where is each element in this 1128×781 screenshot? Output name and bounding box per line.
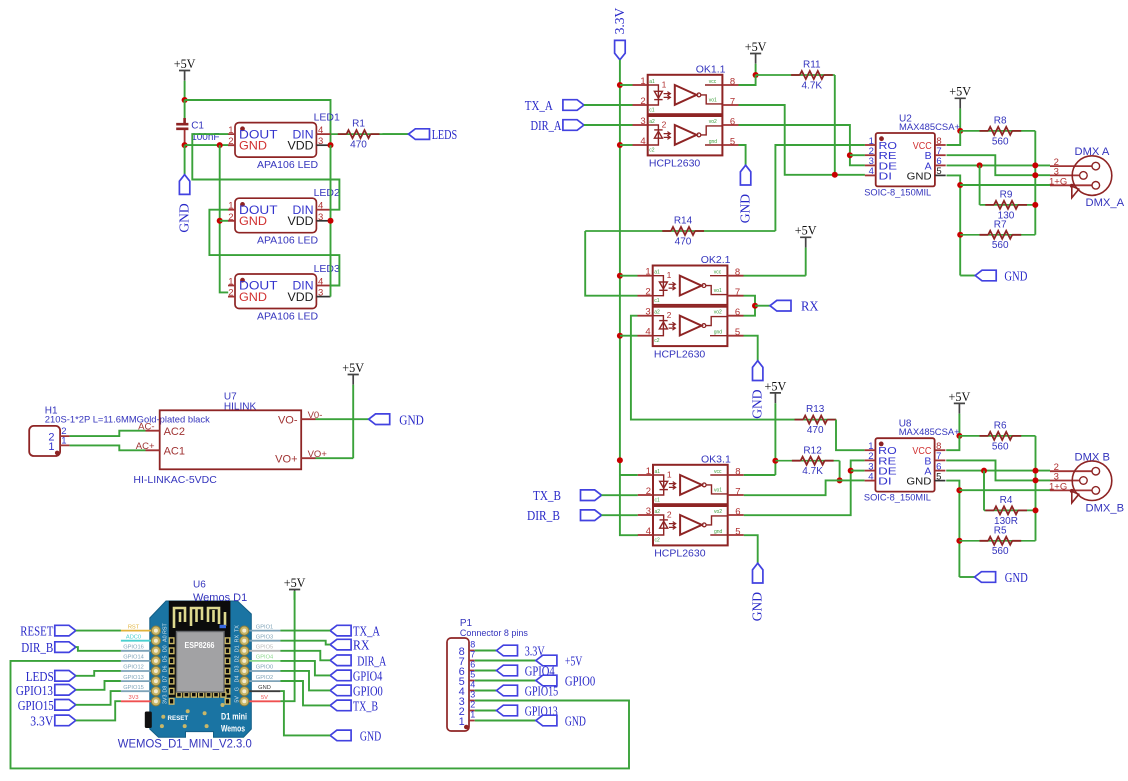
svg-text:DMX A: DMX A <box>1075 146 1110 158</box>
wire P1 pin2 <box>475 710 497 712</box>
junction (R12 tap) <box>772 458 778 464</box>
svg-text:a1: a1 <box>649 79 655 85</box>
wire R1 to LEDS flag <box>383 133 409 135</box>
junction (R4 column) <box>1033 507 1039 513</box>
wire GND to DMX A pin1 <box>960 184 1050 186</box>
svg-text:OK3.1: OK3.1 <box>701 453 731 465</box>
svg-text:2: 2 <box>228 136 233 147</box>
svg-text:+5V: +5V <box>342 361 364 375</box>
svg-text:2: 2 <box>662 120 667 130</box>
svg-text:RX: RX <box>235 635 241 643</box>
svg-text:GND: GND <box>1005 570 1028 585</box>
node RX <box>770 300 791 311</box>
wire to OK1 pin1 <box>620 84 633 86</box>
svg-text:R6: R6 <box>994 421 1007 432</box>
svg-text:c2: c2 <box>655 538 661 544</box>
svg-text:5: 5 <box>470 670 475 680</box>
node GPIO13 (U6) <box>55 685 76 696</box>
junction (3.3V OK2 pin4) <box>617 333 623 339</box>
wire LED2 DOUT to LED3 DIN <box>209 210 339 286</box>
ground GND (OK1) <box>740 165 750 185</box>
svg-text:1: 1 <box>646 466 651 477</box>
svg-text:RESET: RESET <box>168 715 189 722</box>
svg-text:D7: D7 <box>163 676 169 683</box>
junction (+5V/R8/VCC) <box>957 128 963 134</box>
connector H1 <box>29 406 210 457</box>
svg-text:GPIO15: GPIO15 <box>123 685 144 691</box>
node GND (U8) <box>975 572 996 583</box>
wire P1 pin4 <box>475 690 497 692</box>
svg-text:2: 2 <box>470 700 475 710</box>
ground GND (top left) <box>179 175 189 195</box>
pin GPIO3 (U6 right) <box>249 640 280 642</box>
svg-text:GPIO16: GPIO16 <box>123 645 144 651</box>
svg-text:Wemos D1: Wemos D1 <box>193 592 247 604</box>
LED LED2 APA106 <box>228 187 340 247</box>
svg-text:R13: R13 <box>806 404 825 415</box>
wire GND to DMX B pin1 <box>959 489 1050 491</box>
svg-text:2: 2 <box>667 310 672 320</box>
node 3.3V (P1) <box>497 645 518 656</box>
junction (R11/DI) <box>832 172 838 178</box>
wire P1 pin6 <box>475 670 497 672</box>
svg-text:2: 2 <box>667 510 672 520</box>
svg-text:3: 3 <box>470 690 475 700</box>
svg-text:7: 7 <box>735 287 740 298</box>
wire OK2 pin5 to GND <box>744 336 758 361</box>
connector P1 8 pins <box>447 618 528 731</box>
wire DIR_B to OK3 pin3 <box>602 514 638 516</box>
svg-text:5: 5 <box>936 471 941 482</box>
svg-text:GPIO13: GPIO13 <box>16 683 53 698</box>
opto-isolator OK1.1 HCPL2630 <box>633 63 739 169</box>
svg-text:1: 1 <box>459 716 465 728</box>
svg-text:GND: GND <box>399 412 424 427</box>
pin GPIO5 (U6 right) <box>249 650 280 652</box>
svg-text:RX: RX <box>801 299 819 314</box>
svg-text:6: 6 <box>735 507 740 518</box>
node GND (U7) <box>369 414 390 425</box>
ground GND (OK3) <box>753 563 763 583</box>
svg-text:vcc: vcc <box>714 469 722 475</box>
wire +5V rail down to C1 <box>184 100 186 123</box>
svg-text:VDD: VDD <box>288 214 314 228</box>
resistor R9 130 <box>980 204 1036 206</box>
svg-text:TX_B: TX_B <box>533 488 561 503</box>
pin GND (U6 right) <box>249 690 280 692</box>
junction (RE tap) <box>847 152 853 158</box>
pin GPIO16 (U6 left) <box>121 650 151 652</box>
svg-text:RX: RX <box>353 638 370 653</box>
svg-text:GND: GND <box>1004 269 1027 284</box>
node GND (U6) <box>330 730 351 741</box>
svg-text:560: 560 <box>992 240 1009 251</box>
wire GPIO15 <box>76 691 121 705</box>
svg-text:1: 1 <box>470 710 475 720</box>
svg-text:1: 1 <box>228 125 233 136</box>
svg-text:GPIO1: GPIO1 <box>256 624 273 630</box>
svg-text:3: 3 <box>645 307 650 318</box>
svg-text:TX_B: TX_B <box>353 698 378 713</box>
svg-text:Connector 8 pins: Connector 8 pins <box>460 628 528 638</box>
svg-text:a1: a1 <box>655 469 661 475</box>
svg-text:vo2: vo2 <box>714 310 722 316</box>
wire R13 to U8 RO <box>836 420 865 451</box>
svg-text:4.7K: 4.7K <box>802 80 823 91</box>
wire TX_A <box>280 630 330 632</box>
svg-text:DI: DI <box>878 476 892 488</box>
svg-text:vo1: vo1 <box>714 288 722 294</box>
wire OK2 pin7 to RX <box>744 296 756 316</box>
svg-text:GND: GND <box>906 476 931 488</box>
wire OK3 pin5 to GND <box>744 535 758 563</box>
svg-text:SOIC-8_150MIL: SOIC-8_150MIL <box>864 493 931 504</box>
svg-text:GND: GND <box>258 685 271 691</box>
svg-text:5: 5 <box>735 327 740 338</box>
junction (GND row to XLR B) <box>956 487 962 493</box>
junction (3.3V OK1 pin1) <box>617 82 623 88</box>
svg-text:RST: RST <box>163 623 169 634</box>
svg-text:LED3: LED3 <box>314 263 340 275</box>
opto-isolator OK2.1 HCPL2630 <box>638 254 744 360</box>
junction (A/R9) <box>977 162 983 168</box>
svg-text:C1: C1 <box>191 121 204 132</box>
svg-text:R1: R1 <box>352 119 365 130</box>
junction (B column) <box>1032 172 1038 178</box>
svg-text:DIR_B: DIR_B <box>527 508 560 523</box>
svg-text:LEDS: LEDS <box>26 669 54 684</box>
svg-text:VO-: VO- <box>278 414 298 426</box>
svg-text:R8: R8 <box>994 116 1007 127</box>
svg-text:3V3: 3V3 <box>128 695 138 701</box>
svg-text:7: 7 <box>730 97 735 108</box>
svg-text:D5: D5 <box>163 655 169 662</box>
svg-text:WEMOS_D1_MINI_V2.3.0: WEMOS_D1_MINI_V2.3.0 <box>118 738 252 750</box>
wire C1 to GND symbol <box>184 145 186 175</box>
wire LED2 GND stub join <box>220 220 229 222</box>
svg-text:gnd: gnd <box>709 139 718 145</box>
pin GPIO14 (U6 left) <box>121 660 151 662</box>
svg-text:1: 1 <box>48 441 54 453</box>
svg-text:1+G: 1+G <box>1049 481 1067 492</box>
svg-text:470: 470 <box>807 425 824 436</box>
transceiver U2 MAX485CSA <box>864 114 960 199</box>
svg-text:6: 6 <box>735 307 740 318</box>
wire to OK3 pin1 <box>620 474 638 476</box>
wire R14 to OK2 pin2 <box>585 231 637 296</box>
junction (LED2 VDD) <box>328 218 334 224</box>
pin GPIO4 (U6 right) <box>249 660 280 662</box>
svg-text:LED1: LED1 <box>314 111 340 123</box>
wire +5V to OK1 pin8 <box>739 75 756 85</box>
junction (DE tap) <box>848 468 854 474</box>
svg-text:APA106 LED: APA106 LED <box>257 235 319 247</box>
resistor R6 560 <box>959 435 1035 437</box>
svg-text:R5: R5 <box>994 525 1007 536</box>
svg-text:GND: GND <box>177 203 192 232</box>
svg-text:5V: 5V <box>235 696 241 703</box>
svg-text:5: 5 <box>936 166 941 177</box>
svg-text:2: 2 <box>645 287 650 298</box>
svg-text:1: 1 <box>640 76 645 87</box>
wire +5V to U2 VCC <box>947 131 961 145</box>
svg-text:DMX_A: DMX_A <box>1086 197 1125 209</box>
junction (B column B) <box>1033 477 1039 483</box>
svg-text:OK1.1: OK1.1 <box>696 63 726 75</box>
svg-text:+5V: +5V <box>949 390 971 404</box>
svg-text:3: 3 <box>640 116 645 127</box>
node DIR_B (U6) <box>55 642 76 653</box>
svg-text:LEDS: LEDS <box>432 127 458 142</box>
connector DMX_A XLR <box>1049 146 1125 209</box>
node GND (U2) <box>975 270 996 281</box>
svg-text:3: 3 <box>318 212 323 223</box>
svg-text:1: 1 <box>645 267 650 278</box>
node GPIO4 (U6) <box>330 670 351 681</box>
svg-text:GPIO3: GPIO3 <box>256 634 273 640</box>
svg-text:4: 4 <box>640 136 645 147</box>
svg-text:4: 4 <box>868 471 873 482</box>
junction (A column B) <box>1033 468 1039 474</box>
svg-text:D1: D1 <box>235 645 241 652</box>
svg-text:3: 3 <box>318 288 323 299</box>
svg-text:G: G <box>235 687 241 691</box>
svg-text:2: 2 <box>228 288 233 299</box>
svg-text:1: 1 <box>61 435 66 446</box>
wire DIR_B to GPIO16 <box>76 647 121 651</box>
svg-text:+5V: +5V <box>765 379 787 393</box>
svg-text:c2: c2 <box>654 338 660 344</box>
svg-text:3.3V: 3.3V <box>30 713 53 728</box>
wire U2 B to DMX A pin3 <box>947 155 1051 175</box>
svg-text:HI-LINKAC-5VDC: HI-LINKAC-5VDC <box>133 474 217 486</box>
svg-text:ADC0: ADC0 <box>126 634 141 640</box>
wire H1 pin2 to U7 AC2 <box>70 431 146 436</box>
pin GPIO13 (U6 left) <box>121 680 151 682</box>
wire RE tap <box>850 154 865 156</box>
transceiver U8 MAX485CSA <box>864 419 960 504</box>
svg-text:c1: c1 <box>655 498 661 504</box>
pin GPIO15 (U6 left) <box>121 690 151 692</box>
LED LED1 APA106 <box>228 111 340 171</box>
junction (R12/DI) <box>837 477 843 483</box>
svg-text:470: 470 <box>675 236 692 247</box>
node GND (P1) <box>536 715 557 726</box>
svg-text:7: 7 <box>470 650 475 660</box>
wire U2 RO down to R14 <box>775 145 865 231</box>
wire R11 to DI net <box>834 75 836 175</box>
svg-text:5: 5 <box>735 527 740 538</box>
svg-text:GPIO0: GPIO0 <box>353 683 383 698</box>
wire U2 GND pin5 down <box>947 175 961 275</box>
svg-text:a2: a2 <box>654 310 660 316</box>
svg-text:c1: c1 <box>654 298 660 304</box>
pin RST (U6 left) <box>121 630 151 632</box>
svg-text:1: 1 <box>667 270 672 280</box>
power 3.3V flag (top) <box>615 40 626 59</box>
svg-text:4: 4 <box>318 125 323 136</box>
wire GND net C1 to LED1 pin2 <box>185 144 229 146</box>
wire RX <box>280 641 330 645</box>
node 3.3V (U6) <box>55 715 76 726</box>
svg-text:vo1: vo1 <box>709 98 717 104</box>
junction (R9 column) <box>1032 202 1038 208</box>
svg-text:TX_A: TX_A <box>525 98 553 113</box>
svg-text:+5V: +5V <box>284 576 306 590</box>
resistor R5 560 <box>959 540 1035 542</box>
junction (LED1 VDD) <box>328 142 334 148</box>
svg-text:GPIO4: GPIO4 <box>256 655 273 661</box>
wire A to R4 <box>983 471 985 511</box>
svg-text:vcc: vcc <box>714 270 722 276</box>
svg-text:R11: R11 <box>803 60 821 71</box>
svg-text:R14: R14 <box>674 216 693 227</box>
wire +5V to OK2 pin8 <box>744 275 806 277</box>
wire 3.3V rail <box>620 60 638 535</box>
wire U8 A to DMX B pin2 <box>946 470 1050 472</box>
junction (3.3V OK1 pin4) <box>617 142 623 148</box>
svg-text:560: 560 <box>992 136 1009 147</box>
svg-text:a2: a2 <box>649 119 655 125</box>
ground GND (OK2) <box>753 361 763 381</box>
wire GND chain down LED2 LED3 <box>220 145 229 292</box>
svg-text:MAX485CSA+: MAX485CSA+ <box>899 427 960 438</box>
svg-text:8: 8 <box>735 467 740 478</box>
resistor R12 4.7K <box>775 460 839 462</box>
svg-text:VO+: VO+ <box>275 453 297 465</box>
junction (3.3V rail mid) <box>617 457 623 463</box>
svg-text:OK2.1: OK2.1 <box>701 254 731 266</box>
node GPIO15 (P1) <box>497 685 518 696</box>
svg-text:GND: GND <box>907 170 932 182</box>
wire OK3 pin6 to U8 RE/DE <box>744 460 865 515</box>
svg-text:DIR_A: DIR_A <box>531 118 562 133</box>
svg-text:HCPL2630: HCPL2630 <box>649 158 701 170</box>
svg-text:GND: GND <box>565 714 586 729</box>
svg-text:RESET: RESET <box>20 624 54 639</box>
svg-text:DIR_A: DIR_A <box>357 653 386 668</box>
connector DMX_B XLR <box>1049 451 1124 514</box>
node LEDS <box>409 129 430 140</box>
node TX_A (U6) <box>330 625 351 636</box>
svg-text:vo2: vo2 <box>714 509 722 515</box>
svg-text:4: 4 <box>869 166 874 177</box>
wire R12 to U8 DI net <box>839 461 841 481</box>
svg-text:4: 4 <box>645 327 650 338</box>
svg-text:+5V: +5V <box>949 85 971 99</box>
svg-text:4: 4 <box>470 680 475 690</box>
LED LED3 APA106 <box>228 263 340 323</box>
svg-text:vo1: vo1 <box>714 488 722 494</box>
wire TX_B to OK3 pin2 <box>602 494 638 496</box>
svg-text:LED2: LED2 <box>314 187 340 199</box>
junction (R7 tap) <box>957 232 963 238</box>
svg-text:GND: GND <box>239 138 267 152</box>
svg-text:APA106 LED: APA106 LED <box>257 310 319 322</box>
svg-text:GPIO15: GPIO15 <box>525 684 559 699</box>
junction (A/R4) <box>981 468 987 474</box>
svg-text:SOIC-8_150MIL: SOIC-8_150MIL <box>864 188 931 199</box>
svg-text:2: 2 <box>228 212 233 223</box>
svg-text:HCPL2630: HCPL2630 <box>654 548 706 560</box>
svg-text:GND: GND <box>750 592 765 621</box>
svg-text:GND: GND <box>239 290 267 304</box>
wire GPIO13 <box>76 681 121 690</box>
svg-text:+5V: +5V <box>174 57 196 71</box>
node GPIO4 (P1) <box>497 665 518 676</box>
svg-text:D8: D8 <box>163 686 169 693</box>
svg-text:AC-: AC- <box>138 422 154 433</box>
wire P1 pin1 <box>475 720 536 722</box>
svg-text:gnd: gnd <box>714 330 723 336</box>
svg-text:4: 4 <box>318 277 323 288</box>
svg-text:D2: D2 <box>235 655 241 662</box>
svg-text:vcc: vcc <box>709 79 717 85</box>
svg-text:AC+: AC+ <box>136 441 155 452</box>
wire R8 to A/B terminator column <box>1034 131 1036 235</box>
wire OK1 pin5 to GND <box>739 145 746 165</box>
node RESET <box>55 625 76 636</box>
svg-text:R4: R4 <box>1000 495 1013 506</box>
resistor R4 130R <box>984 509 1036 511</box>
pin GPIO1 (U6 right) <box>249 630 280 632</box>
wire OK2 pin3 to R13 <box>631 316 803 420</box>
svg-text:1+G: 1+G <box>1049 176 1067 187</box>
svg-text:470: 470 <box>350 140 367 151</box>
wire +5V rail to LED VDD column <box>185 100 331 145</box>
svg-text:D3: D3 <box>235 666 241 673</box>
svg-text:4: 4 <box>318 201 323 212</box>
svg-text:a1: a1 <box>654 270 660 276</box>
junction (+5V/R6/VCC) <box>956 433 962 439</box>
pin GPIO0 (U6 right) <box>249 670 280 672</box>
svg-text:560: 560 <box>992 441 1009 452</box>
wire to OK2 pin4 <box>620 335 638 337</box>
wire to GND flag (U2) <box>960 275 975 277</box>
wire GPIO14 to P1 pin3 (long loop) <box>11 661 630 769</box>
svg-text:D1 mini: D1 mini <box>221 712 247 723</box>
power module U7 HILINK <box>133 392 327 487</box>
svg-text:4: 4 <box>646 526 651 537</box>
svg-text:+5V: +5V <box>565 654 583 669</box>
svg-text:R7: R7 <box>994 219 1007 230</box>
svg-text:GPIO12: GPIO12 <box>123 665 144 671</box>
svg-text:c2: c2 <box>649 148 655 154</box>
svg-text:+5V: +5V <box>795 224 817 238</box>
wire DIR_A to OK1 pin3 <box>584 124 633 126</box>
svg-text:TX: TX <box>235 625 241 632</box>
node RX (U6) <box>330 639 351 650</box>
svg-text:ESP8266: ESP8266 <box>185 641 216 650</box>
junction (+5V R11) <box>753 72 759 78</box>
svg-text:A0: A0 <box>163 635 169 642</box>
junction (RX tap) <box>752 303 758 309</box>
resistor R13 470 <box>803 419 836 421</box>
wire TX_B <box>280 681 330 705</box>
resistor R8 560 <box>960 130 1035 132</box>
svg-text:GPIO13: GPIO13 <box>123 675 144 681</box>
junction (R5 tap) <box>956 538 962 544</box>
node GPIO15 (U6) <box>55 700 76 711</box>
svg-text:R12: R12 <box>803 445 822 456</box>
svg-text:AC1: AC1 <box>164 446 185 458</box>
wire OK1 pin7 to U2 DI <box>739 105 865 175</box>
svg-text:8: 8 <box>730 77 735 88</box>
svg-text:2: 2 <box>646 486 651 497</box>
wire U7 VO- to GND flag <box>316 418 369 420</box>
svg-text:DI: DI <box>879 170 893 182</box>
junction (+5V rail) <box>182 97 188 103</box>
